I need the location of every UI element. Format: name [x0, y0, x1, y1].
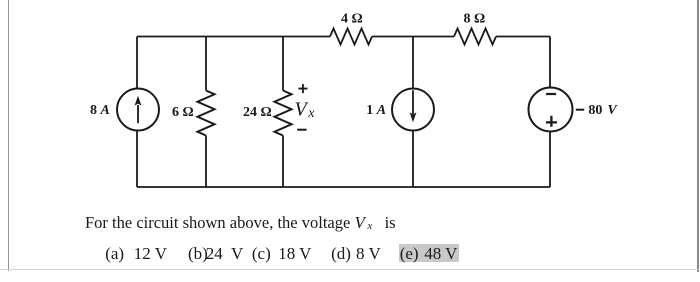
svg-text:6 Ω: 6 Ω — [172, 105, 194, 120]
svg-text:80 V: 80 V — [588, 103, 618, 118]
svg-text:Vx: Vx — [295, 98, 316, 121]
svg-text:8 A: 8 A — [90, 103, 110, 118]
svg-text:8 Ω: 8 Ω — [464, 12, 486, 27]
svg-text:1 A: 1 A — [366, 103, 386, 118]
svg-text:4 Ω: 4 Ω — [341, 12, 363, 27]
svg-text:24 Ω: 24 Ω — [243, 105, 272, 120]
